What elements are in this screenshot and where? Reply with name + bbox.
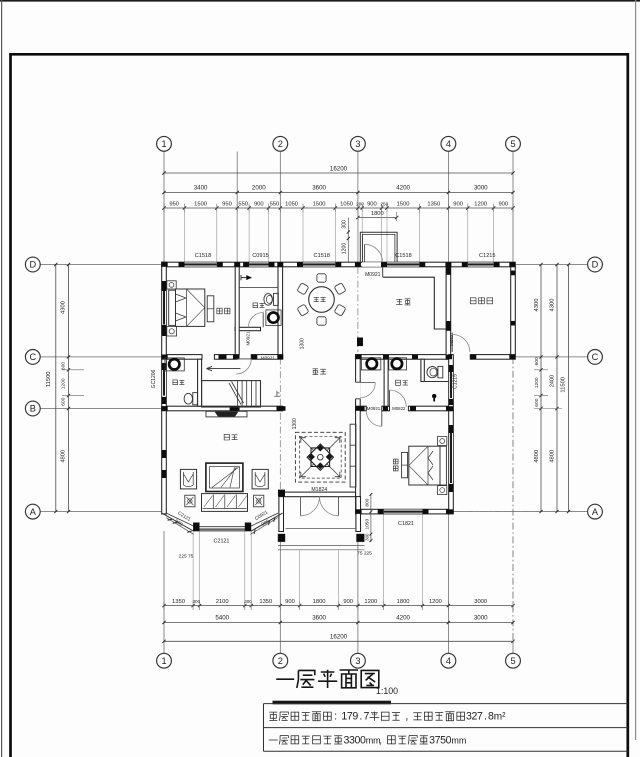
svg-text:1500: 1500 xyxy=(313,201,326,207)
svg-text:4300: 4300 xyxy=(550,299,556,312)
svg-text:M0822: M0822 xyxy=(392,406,406,411)
svg-text:2: 2 xyxy=(278,139,283,149)
svg-text:m²: m² xyxy=(494,712,506,723)
svg-text:1200: 1200 xyxy=(534,377,540,388)
svg-text:4300: 4300 xyxy=(61,301,67,314)
svg-text:mm: mm xyxy=(451,735,466,745)
svg-text:1: 1 xyxy=(161,139,166,149)
svg-text:16200: 16200 xyxy=(330,634,348,641)
svg-text:250: 250 xyxy=(380,201,388,206)
svg-text:C: C xyxy=(592,352,599,362)
svg-text::: : xyxy=(334,711,337,723)
svg-text:7: 7 xyxy=(477,711,483,723)
svg-text:11500: 11500 xyxy=(46,371,52,387)
svg-text:1300: 1300 xyxy=(292,418,298,429)
svg-text:7: 7 xyxy=(363,711,369,723)
svg-text:B: B xyxy=(30,404,36,414)
svg-text:1050: 1050 xyxy=(364,519,370,530)
svg-text:1050: 1050 xyxy=(340,201,353,207)
svg-text:5: 5 xyxy=(510,139,515,149)
svg-text:M0921: M0921 xyxy=(367,406,381,411)
svg-text:300: 300 xyxy=(364,533,369,541)
svg-text:4200: 4200 xyxy=(396,185,410,192)
svg-text:11500: 11500 xyxy=(561,377,567,393)
svg-text:,: , xyxy=(405,711,408,723)
svg-text:900: 900 xyxy=(453,201,463,207)
svg-text:1: 1 xyxy=(161,656,166,666)
svg-text:900: 900 xyxy=(285,599,295,605)
svg-text:C: C xyxy=(29,352,36,362)
svg-text:4300: 4300 xyxy=(534,299,540,312)
svg-text:950: 950 xyxy=(222,201,232,207)
svg-text:900: 900 xyxy=(367,201,377,207)
svg-text:M0921: M0921 xyxy=(246,331,251,345)
svg-text:4: 4 xyxy=(446,656,451,666)
svg-text:1200: 1200 xyxy=(474,201,487,207)
svg-text:600: 600 xyxy=(61,397,67,405)
svg-text:C0915: C0915 xyxy=(252,253,268,259)
svg-text:5: 5 xyxy=(510,656,515,666)
svg-text:550: 550 xyxy=(238,201,248,207)
svg-text:GC1206: GC1206 xyxy=(151,369,157,388)
svg-text:1200: 1200 xyxy=(61,378,67,389)
svg-text:600: 600 xyxy=(534,398,540,406)
svg-text:550: 550 xyxy=(270,201,280,207)
svg-text:900: 900 xyxy=(498,201,508,207)
svg-text:1200: 1200 xyxy=(429,599,442,605)
svg-text:D: D xyxy=(29,260,36,270)
svg-text:3000: 3000 xyxy=(474,185,488,192)
svg-text:1350: 1350 xyxy=(427,201,440,207)
svg-text:C1215: C1215 xyxy=(452,374,458,389)
svg-text:200: 200 xyxy=(356,201,364,206)
svg-text:1300: 1300 xyxy=(300,338,306,349)
svg-text:1350: 1350 xyxy=(172,599,185,605)
svg-text:16200: 16200 xyxy=(330,165,348,172)
svg-text:300: 300 xyxy=(342,220,348,229)
svg-text:3000: 3000 xyxy=(474,599,487,605)
svg-text:M0921: M0921 xyxy=(365,272,381,278)
svg-text:4200: 4200 xyxy=(396,615,410,622)
svg-text:1800: 1800 xyxy=(397,599,410,605)
svg-text:2000: 2000 xyxy=(252,185,266,192)
svg-text:C1215: C1215 xyxy=(479,253,495,259)
svg-text:1200: 1200 xyxy=(364,599,377,605)
svg-text:,: , xyxy=(379,734,382,746)
svg-text:D: D xyxy=(592,260,599,270)
svg-text:9: 9 xyxy=(352,711,358,723)
svg-text:.: . xyxy=(484,711,487,723)
svg-text:3600: 3600 xyxy=(312,615,326,622)
svg-text:900: 900 xyxy=(343,599,353,605)
svg-text:950: 950 xyxy=(169,201,179,207)
svg-text:1200: 1200 xyxy=(342,243,348,255)
svg-text:M0821: M0821 xyxy=(449,332,454,346)
svg-text:.: . xyxy=(359,711,362,723)
svg-text:C1821: C1821 xyxy=(398,521,414,527)
svg-text:1500: 1500 xyxy=(397,201,410,207)
svg-text:5400: 5400 xyxy=(215,615,229,622)
svg-text:4800: 4800 xyxy=(534,450,540,463)
svg-text:A: A xyxy=(30,507,37,517)
svg-text:C1518: C1518 xyxy=(195,253,211,259)
svg-text:4: 4 xyxy=(446,139,451,149)
svg-text:2400: 2400 xyxy=(550,375,556,387)
svg-text:600: 600 xyxy=(61,362,67,370)
svg-text:1500: 1500 xyxy=(194,201,207,207)
svg-text:3: 3 xyxy=(355,656,360,666)
svg-text:800: 800 xyxy=(364,498,370,506)
svg-text:225 75: 225 75 xyxy=(179,553,194,559)
svg-text:4800: 4800 xyxy=(61,450,67,463)
svg-text:C2121: C2121 xyxy=(214,539,230,545)
svg-text:3: 3 xyxy=(355,139,360,149)
svg-text:1350: 1350 xyxy=(259,599,272,605)
svg-text:M1824: M1824 xyxy=(311,487,327,493)
svg-text:C1518: C1518 xyxy=(314,253,330,259)
svg-text:C1518: C1518 xyxy=(395,253,411,259)
svg-text:2100: 2100 xyxy=(216,599,229,605)
svg-text:1:100: 1:100 xyxy=(376,686,398,696)
svg-text:3600: 3600 xyxy=(312,185,326,192)
svg-text:900: 900 xyxy=(254,201,264,207)
svg-text:1050: 1050 xyxy=(285,201,298,207)
svg-text:A: A xyxy=(592,507,599,517)
svg-text:M0921: M0921 xyxy=(261,355,275,360)
svg-text:3400: 3400 xyxy=(194,185,208,192)
svg-text:75 225: 75 225 xyxy=(357,550,372,556)
svg-text:2: 2 xyxy=(278,656,283,666)
svg-text:600: 600 xyxy=(534,357,540,365)
svg-text:3000: 3000 xyxy=(474,615,488,622)
svg-text:4800: 4800 xyxy=(550,450,556,463)
svg-text:1800: 1800 xyxy=(313,599,326,605)
